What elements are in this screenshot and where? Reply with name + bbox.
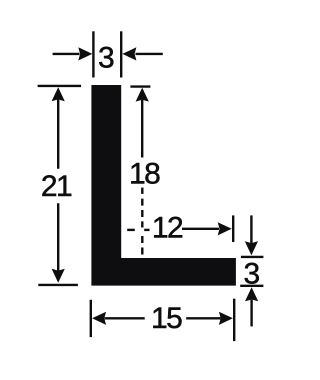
width 12 dimension arrow (points right) bbox=[182, 222, 232, 235]
extension line right of top width dimension bbox=[120, 31, 122, 77]
svg-text:12: 12 bbox=[152, 212, 183, 245]
dashed centerline below 18 text bbox=[141, 188, 143, 255]
top width dimension left arrow (points right) bbox=[53, 47, 93, 60]
inner height 18 dimension arrow (points up) bbox=[136, 88, 149, 158]
tick right of bottom width 15 dimension bbox=[233, 299, 235, 341]
extension line top of height 21 dimension bbox=[38, 85, 82, 87]
tick left of bottom width 15 dimension bbox=[90, 300, 92, 337]
tick at top of inner height 18 dimension bbox=[130, 85, 150, 87]
svg-text:3: 3 bbox=[243, 258, 260, 291]
extension line bottom of height 21 dimension bbox=[38, 284, 78, 286]
L-profile cross-section (black angle shape) bbox=[91, 85, 236, 286]
height 21 dimension line upper arrow (points up) bbox=[52, 87, 65, 169]
svg-text:15: 15 bbox=[151, 302, 182, 335]
top width dimension right arrow (points left) bbox=[122, 47, 162, 60]
bottom width 15 left arrow (points left) bbox=[92, 312, 145, 325]
svg-text:18: 18 bbox=[129, 158, 160, 191]
extension line left of top width dimension bbox=[92, 31, 94, 77]
height 21 dimension line lower arrow (points down) bbox=[52, 203, 65, 282]
tick at end of width 12 dimension bbox=[232, 215, 234, 242]
svg-text:3: 3 bbox=[98, 42, 115, 75]
tick bottom of right thickness 3 dimension bbox=[240, 285, 263, 287]
dashed leader of width 12 dimension bbox=[127, 229, 149, 231]
right thickness 3 lower arrow (points up) bbox=[245, 287, 258, 326]
tick top of right thickness 3 dimension bbox=[241, 256, 264, 258]
right thickness 3 upper arrow (points down) bbox=[245, 215, 258, 255]
bottom width 15 right arrow (points right) bbox=[186, 312, 233, 325]
svg-text:21: 21 bbox=[41, 170, 72, 203]
